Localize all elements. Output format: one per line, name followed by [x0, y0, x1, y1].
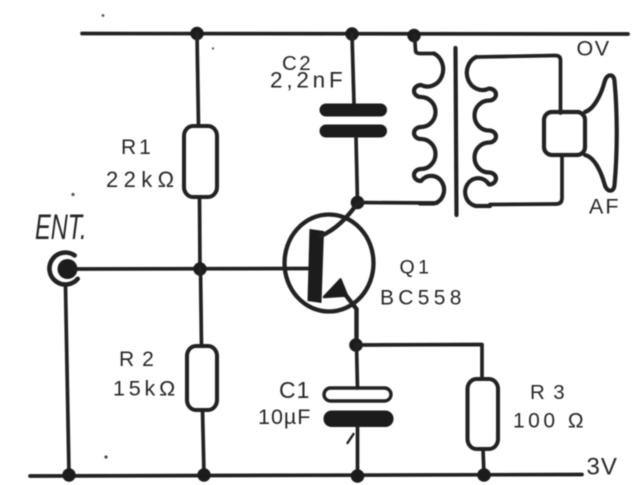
wire: secondary top to speaker: [476, 56, 561, 114]
transformer T1 secondary winding: [465, 57, 496, 206]
node: top rail / C2 branch junction: [345, 27, 358, 40]
speaker cone: [585, 75, 617, 190]
stray speck bottom left: [104, 455, 107, 458]
transistor Q1 base bar: [308, 229, 325, 303]
wire: secondary bottom to speaker return: [490, 155, 562, 205]
resistor R1 body: [184, 126, 217, 197]
wire: C2 bottom to collector node: [356, 137, 358, 202]
svg-text:100 Ω: 100 Ω: [513, 410, 587, 433]
svg-text:AF: AF: [589, 195, 620, 219]
resistor R2 body: [187, 346, 217, 410]
wire: base node down to R2: [201, 269, 202, 346]
wire: emitter node down to C1: [357, 345, 358, 388]
node: input ground junction on 3V rail: [62, 468, 75, 481]
wire: input to transistor base: [76, 267, 309, 271]
svg-text:22kΩ: 22kΩ: [106, 167, 180, 192]
svg-text:3V: 3V: [587, 454, 618, 481]
capacitor C1 bottom plate: [324, 411, 394, 428]
transistor Q1 emitter arrow (PNP): [324, 280, 347, 298]
capacitor C2 bottom plate: [320, 125, 388, 138]
wire: top rail down to C2: [352, 34, 354, 104]
node: base wire / R1-R2 divider junction: [193, 262, 206, 275]
capacitor C1 top plate: [324, 388, 391, 401]
svg-text:R2: R2: [119, 348, 162, 371]
node: top rail / R1 branch junction: [190, 27, 203, 40]
wire: 3V bottom supply rail: [30, 475, 582, 477]
wire: input jack down to 3V rail: [66, 287, 70, 475]
node: collector junction: [351, 196, 365, 210]
node: emitter junction: [349, 338, 363, 352]
svg-text:R3: R3: [530, 381, 573, 404]
input jack center pin: [58, 259, 78, 279]
node: R2 ground junction on 3V rail: [197, 468, 210, 481]
stray speck above ENT: [71, 193, 74, 196]
resistor R3 body: [468, 379, 499, 449]
wire: 0V top supply rail: [82, 32, 628, 36]
svg-text:ENT.: ENT.: [35, 209, 87, 248]
transformer T1 primary winding: [414, 54, 444, 204]
wire: C1 bottom to 3V rail: [356, 427, 360, 476]
wire: top rail down to R1: [197, 34, 199, 127]
wire: top rail to transformer primary top: [415, 36, 435, 54]
svg-text:C1: C1: [279, 377, 310, 403]
input jack ENT. outer ring: [49, 253, 77, 285]
svg-text:OV: OV: [577, 37, 611, 61]
capacitor C2 top plate: [320, 104, 388, 117]
svg-text:Q1: Q1: [400, 257, 433, 279]
svg-text:BC558: BC558: [380, 287, 466, 310]
transistor Q1 emitter lead: [341, 289, 357, 345]
wire: R1 bottom to base-wire crossing: [198, 197, 202, 269]
node: R3 ground junction on 3V rail: [477, 468, 491, 482]
svg-text:15kΩ: 15kΩ: [113, 377, 179, 401]
node: top rail / transformer primary junction: [407, 29, 420, 42]
wire: R2 bottom to 3V rail: [203, 410, 205, 475]
transistor Q1 collector lead: [321, 204, 357, 236]
svg-text:R1: R1: [121, 136, 154, 159]
wire: emitter node right to R3: [356, 345, 482, 380]
svg-text:2,2nF: 2,2nF: [270, 68, 347, 93]
transformer T1 core: [456, 48, 457, 215]
speaker driver body: [544, 112, 585, 155]
transistor Q1 body circle: [285, 215, 374, 312]
svg-text:10µF: 10µF: [258, 405, 311, 429]
node: C1 ground junction on 3V rail: [351, 469, 365, 483]
stray tick mark near C1: [348, 434, 354, 443]
stray speck top: [102, 14, 105, 17]
stray speck near R1: [212, 47, 214, 49]
wire: R3 bottom to 3V rail: [483, 449, 484, 475]
wire: collector node to transformer primary bottom: [358, 201, 438, 205]
